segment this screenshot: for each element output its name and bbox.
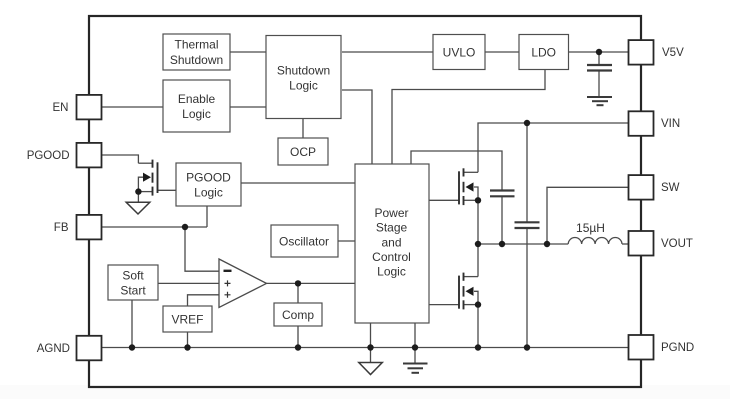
svg-text:VREF: VREF	[171, 312, 203, 326]
svg-text:Enable: Enable	[178, 92, 216, 106]
svg-text:and: and	[381, 235, 401, 249]
svg-text:Oscillator: Oscillator	[279, 234, 329, 248]
svg-text:V5V: V5V	[662, 47, 684, 59]
svg-text:LDO: LDO	[531, 45, 556, 59]
svg-text:Logic: Logic	[182, 107, 211, 121]
svg-text:Thermal: Thermal	[174, 38, 218, 52]
svg-text:Control: Control	[372, 250, 411, 264]
svg-text:Shutdown: Shutdown	[170, 53, 223, 67]
svg-text:EN: EN	[53, 102, 69, 114]
svg-text:Logic: Logic	[289, 78, 318, 92]
svg-text:Soft: Soft	[122, 268, 144, 282]
svg-text:PGOOD: PGOOD	[186, 170, 231, 184]
svg-text:15µH: 15µH	[576, 221, 605, 235]
svg-text:UVLO: UVLO	[443, 45, 476, 59]
svg-text:Comp: Comp	[282, 308, 314, 322]
svg-text:Shutdown: Shutdown	[277, 63, 330, 77]
svg-text:Power: Power	[374, 206, 408, 220]
svg-text:Start: Start	[120, 283, 146, 297]
svg-text:PGND: PGND	[661, 342, 694, 354]
svg-text:SW: SW	[661, 182, 680, 194]
svg-text:PGOOD: PGOOD	[27, 150, 70, 162]
svg-text:Logic: Logic	[194, 185, 223, 199]
svg-text:Stage: Stage	[376, 221, 408, 235]
svg-text:OCP: OCP	[290, 145, 316, 159]
svg-text:AGND: AGND	[37, 343, 70, 355]
svg-text:VOUT: VOUT	[661, 238, 693, 250]
svg-text:Logic: Logic	[377, 265, 406, 279]
svg-text:VIN: VIN	[661, 118, 680, 130]
svg-text:FB: FB	[54, 222, 69, 234]
